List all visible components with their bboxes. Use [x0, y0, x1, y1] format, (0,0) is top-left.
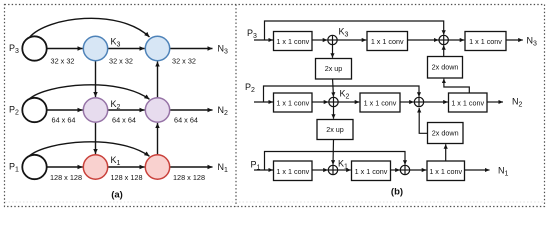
- svg-text:1 x 1 conv: 1 x 1 conv: [276, 167, 309, 176]
- conv box texts: [276, 37, 502, 176]
- svg-text:32 x 32: 32 x 32: [109, 57, 133, 66]
- rowA wire conv1 to adder1: [313, 39, 328, 41]
- circle red2: [145, 155, 169, 179]
- wire red2 up to purple2: [157, 123, 159, 155]
- svg-text:1 x 1 conv: 1 x 1 conv: [451, 99, 484, 108]
- svg-text:1 x 1 conv: 1 x 1 conv: [371, 37, 404, 46]
- 2x up box 1: [316, 59, 352, 80]
- wire K3 to blue2: [108, 48, 145, 50]
- wire white3 to K1: [47, 166, 83, 168]
- wire K3 down to K2: [95, 61, 97, 97]
- rowA conv1 box: [274, 32, 313, 51]
- svg-text:2x up: 2x up: [325, 64, 343, 73]
- rowC wire adder2 to conv3: [410, 169, 427, 171]
- rowC skip wire: [265, 152, 406, 171]
- wire K2 to purple2: [108, 109, 145, 111]
- rowA wire adder2 to conv3: [448, 39, 464, 41]
- rowA input wire P3: [254, 39, 273, 41]
- wire purple2 to N2: [170, 109, 213, 111]
- 2x up box 2: [317, 120, 353, 140]
- faint inner dotted line bottom: [5, 201, 545, 203]
- svg-text:32 x 32: 32 x 32: [51, 57, 75, 66]
- rowC input wire P1: [254, 169, 273, 171]
- wire white2 to K2: [47, 109, 83, 111]
- row1 arc P3->blue2: [30, 18, 150, 37]
- svg-text:2x up: 2x up: [326, 125, 344, 134]
- circle blue2: [145, 36, 169, 60]
- rowA wire conv3 to N3: [506, 39, 523, 41]
- rowC wire conv3 to N1: [465, 169, 490, 171]
- rowB wire conv1 to adder1: [313, 101, 329, 103]
- 2xdown1 up to rowA adder2: [443, 45, 445, 56]
- svg-text:32 x 32: 32 x 32: [172, 57, 196, 66]
- svg-text:64 x 64: 64 x 64: [52, 116, 76, 125]
- adder rowC 2: [400, 165, 409, 174]
- svg-text:1 x 1 conv: 1 x 1 conv: [469, 37, 502, 46]
- circle K1 red: [83, 155, 107, 179]
- circle purple2: [145, 98, 169, 122]
- adder rowB 2: [414, 97, 423, 106]
- 2xup1 down to adder K2: [333, 78, 334, 97]
- 2xdown2 input from rowC conv3: [445, 144, 447, 161]
- row2 arc P2->purple2: [30, 85, 150, 99]
- rowC conv3 box: [427, 161, 465, 181]
- circle P1 white: [22, 155, 46, 179]
- rowB wire conv3 to N2: [487, 101, 503, 103]
- wire K1 to red2: [108, 166, 145, 168]
- svg-text:2x down: 2x down: [432, 63, 459, 72]
- rowB conv3 box: [449, 93, 488, 112]
- 2xdown2 out left up to rowB adder2: [419, 108, 427, 133]
- rowA wire adder1 to conv2: [337, 39, 366, 41]
- rowA conv2 box: [367, 32, 408, 51]
- svg-text:1 x 1 conv: 1 x 1 conv: [276, 37, 309, 46]
- svg-text:128 x 128: 128 x 128: [173, 173, 205, 182]
- circle P3 white: [22, 36, 46, 60]
- adder K1: [328, 165, 337, 174]
- 2x down box 2: [428, 123, 464, 144]
- circle K3 blue: [83, 36, 107, 60]
- rowC wire conv2 to adder2: [391, 169, 400, 171]
- rowB wire adder2 to conv3: [424, 101, 448, 103]
- rowA skip wire: [265, 21, 444, 40]
- rowC conv2 box: [352, 161, 391, 181]
- wire blue2 to N3: [170, 48, 213, 50]
- 2xup2 down to adder K1: [332, 140, 335, 165]
- svg-text:(a): (a): [111, 189, 123, 200]
- row3 arc P1->red2: [30, 142, 150, 156]
- rowA adder1 down to 2xup1: [332, 45, 334, 58]
- rowC wire conv1 to adder1: [312, 169, 328, 171]
- wire white1 to K3: [47, 48, 83, 50]
- rowC wire adder1 to conv2: [338, 169, 351, 171]
- rowB conv1 box: [274, 93, 313, 112]
- adder K2: [329, 97, 338, 106]
- wire purple2 up to blue2: [157, 62, 159, 98]
- svg-text:1 x 1 conv: 1 x 1 conv: [276, 99, 309, 108]
- wire K2 down to K1: [95, 122, 97, 154]
- circle K2 purple: [83, 98, 107, 122]
- svg-text:128 x 128: 128 x 128: [110, 173, 142, 182]
- rowB input wire P2: [254, 101, 273, 103]
- svg-text:1 x 1 conv: 1 x 1 conv: [364, 99, 397, 108]
- rowB adder1 down to 2xup2: [333, 107, 335, 119]
- rowA wire conv2 to adder2: [408, 39, 439, 41]
- circle P2 white: [22, 98, 46, 122]
- panel separator dotted line: [235, 5, 237, 207]
- rowB skip wire: [264, 86, 420, 102]
- rowB conv2 box: [360, 93, 400, 112]
- svg-text:(b): (b): [391, 187, 403, 198]
- rowB wire conv2 to adder2: [400, 101, 414, 103]
- rowB wire adder1 to conv2: [338, 101, 359, 103]
- svg-text:2x down: 2x down: [432, 129, 459, 138]
- 2xdown1 input from rowB conv3: [444, 79, 469, 93]
- svg-text:128 x 128: 128 x 128: [50, 173, 82, 182]
- adder K3: [328, 35, 337, 44]
- svg-text:64 x 64: 64 x 64: [174, 116, 198, 125]
- svg-text:64 x 64: 64 x 64: [112, 116, 136, 125]
- rowA conv3 box: [465, 32, 506, 51]
- adder rowA 2: [439, 35, 448, 44]
- rowC conv1 box: [274, 161, 313, 181]
- wire red2 to N1: [170, 166, 213, 168]
- svg-text:1 x 1 conv: 1 x 1 conv: [429, 167, 462, 176]
- svg-text:1 x 1 conv: 1 x 1 conv: [355, 167, 388, 176]
- 2x down box 1: [428, 57, 463, 79]
